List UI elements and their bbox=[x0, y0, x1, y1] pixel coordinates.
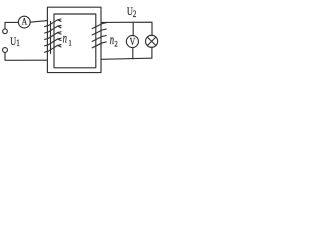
svg-text:n: n bbox=[63, 31, 67, 47]
svg-text:2: 2 bbox=[133, 9, 137, 19]
svg-text:n: n bbox=[110, 32, 114, 48]
svg-text:V: V bbox=[130, 37, 136, 48]
svg-text:A: A bbox=[22, 16, 28, 27]
svg-text:1: 1 bbox=[16, 38, 20, 48]
svg-text:2: 2 bbox=[114, 39, 118, 49]
svg-text:1: 1 bbox=[68, 38, 72, 48]
